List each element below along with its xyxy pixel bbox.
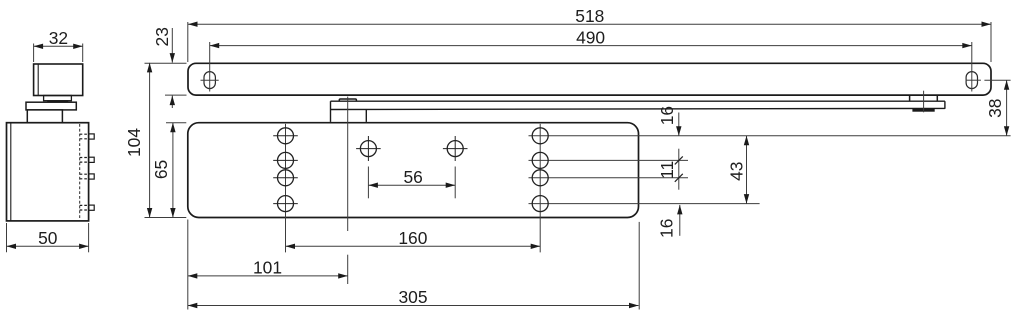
arm bar top edge (331, 100, 945, 102)
dimension 23: upper tail line (171, 28, 173, 63)
rail left slot (oblong hole) (204, 72, 215, 89)
svg-text:23: 23 (152, 27, 172, 46)
dimension 305: left arrow (188, 303, 198, 308)
dimension 305: left extension line (187, 220, 189, 310)
row 1 extension line (529, 135, 1011, 137)
dimension 65: top arrow (170, 123, 175, 133)
dimension 38: top arrow (1004, 80, 1009, 90)
dimension 38: right extension of slot centerline (984, 79, 1010, 81)
hole L2 (273, 152, 298, 168)
right hole column centerline (539, 124, 541, 253)
row 3 extension line (529, 177, 689, 179)
dimension 305: right arrow (629, 303, 639, 308)
hole R4 (532, 196, 548, 212)
left hole column centerline (285, 124, 287, 253)
svg-text:490: 490 (576, 27, 605, 47)
pinion vertical centerline (upper) (347, 97, 349, 231)
hole R3 (532, 170, 548, 186)
svg-text:160: 160 (398, 228, 427, 248)
dimension 490: left arrow (210, 43, 220, 48)
side view: pinion collar (dark) (47, 100, 68, 102)
dimension 518: left extension line (187, 22, 189, 62)
side view: mounting plate (26, 102, 76, 110)
dimension 160: dimension line (286, 245, 541, 247)
dimension 32: dimension line (34, 45, 83, 47)
dimension 32: left arrow (34, 44, 44, 49)
dimension 11: dimension line (678, 149, 680, 190)
dimension 11: upper slash tick (675, 156, 683, 164)
dimension 38: dimension line (1006, 80, 1008, 136)
svg-text:11: 11 (657, 161, 677, 179)
dimension 16 top: arrow (points down) (676, 126, 681, 136)
hole L1 (273, 128, 298, 144)
hole R1 (532, 128, 548, 144)
hole M1 (356, 136, 381, 161)
dimension 518: right extension line (990, 22, 992, 62)
side view: screw 1 (80, 134, 95, 139)
svg-text:305: 305 (398, 287, 427, 307)
dimension 65: dimension line (172, 123, 174, 218)
dimension 50: extension lines (7, 223, 89, 252)
dimension 16 bottom: arrow (points up) (677, 205, 682, 215)
side view: screw 3 (80, 174, 95, 179)
svg-text:16: 16 (657, 106, 677, 125)
dimension 490: dimension line (210, 45, 972, 47)
hole M1 extension line (367, 167, 369, 199)
dimension 32: right arrow (73, 44, 83, 49)
svg-text:38: 38 (985, 99, 1005, 118)
side view: arm shoe inner edge line (37, 64, 39, 96)
dimension 11: lower slash tick (675, 174, 683, 182)
hole L4 (273, 196, 298, 212)
dimension 38: bottom arrow (1004, 126, 1009, 136)
dimension 50: dimension line (7, 245, 89, 247)
arm hub right edge (365, 109, 367, 122)
slider pad (dark) (912, 109, 934, 112)
rail left slot vertical centerline / 490 extension (209, 42, 211, 92)
row 2 extension line (529, 159, 689, 161)
rail right slot vertical centerline / 490 extension (971, 42, 973, 92)
svg-text:16: 16 (656, 219, 676, 238)
svg-text:101: 101 (253, 257, 282, 277)
slider upper block (910, 95, 938, 101)
hole R2 (532, 152, 548, 168)
rail left slot horizontal centerline (201, 79, 219, 81)
hole L3 (273, 170, 298, 186)
rail bottom extension line (left) (165, 94, 187, 96)
dimension 23: upper arrow (points down) (170, 53, 175, 63)
svg-text:518: 518 (575, 6, 604, 26)
dimension 43: top arrow (744, 136, 749, 146)
dimension 518: right arrow (982, 22, 992, 27)
dimension 101: left arrow (188, 273, 198, 278)
dimension 305: right extension line (638, 222, 640, 310)
arm hub left edge (330, 101, 332, 122)
hole M2 extension line (454, 167, 456, 199)
dimension 160: left arrow (286, 244, 296, 249)
svg-text:56: 56 (404, 167, 423, 187)
body top extension line (left) (166, 122, 186, 124)
side view: screw 4 (80, 205, 95, 210)
closer body (front) (188, 123, 639, 218)
dimension 518: left arrow (188, 22, 198, 27)
side view: hub block (27, 110, 62, 123)
dimension 160: right arrow (531, 244, 541, 249)
slider vertical centerline (923, 91, 925, 113)
side view: screw 2 (80, 157, 95, 162)
side view: pinion boss (44, 96, 72, 101)
side view: body inner edge line (10, 123, 12, 221)
dimension 101: dimension line (188, 275, 348, 277)
dimension 104: top arrow (147, 63, 152, 73)
side view: arm shoe box (34, 64, 83, 96)
dimension 65: bottom arrow (170, 208, 175, 218)
dimension 16 top: tail line (678, 113, 680, 136)
dimension 56: left arrow (368, 183, 378, 188)
arm bar bottom edge (331, 108, 945, 109)
dimension 104: bottom arrow (147, 208, 152, 218)
rail right slot (oblong hole) (966, 72, 977, 89)
row 4 extension line (529, 203, 760, 205)
slider block right end (944, 101, 946, 109)
dimension 50: left arrow (7, 244, 17, 249)
pinion vertical centerline (lower) (347, 255, 349, 284)
pinion cap on arm (339, 99, 356, 101)
side view: hidden dashed line (79, 124, 81, 220)
slide rail (188, 63, 991, 95)
dimension 50: right arrow (79, 244, 89, 249)
svg-text:32: 32 (49, 28, 68, 48)
svg-text:104: 104 (124, 128, 144, 157)
body bottom extension line (left) (145, 217, 187, 219)
svg-text:65: 65 (151, 160, 171, 179)
hole M2 (443, 136, 468, 161)
dimension 32: extension lines (34, 44, 83, 63)
rail right slot horizontal centerline (966, 79, 981, 81)
dimension 16 bottom: tail line (679, 205, 681, 236)
rail top extension line (left) (145, 62, 187, 64)
dimension 43: bottom arrow (744, 194, 749, 204)
dimension 43: dimension line (746, 136, 748, 204)
dimension 490: right arrow (962, 43, 972, 48)
dimension 305: dimension line (188, 305, 639, 307)
dimension 23: lower arrow (points up) (170, 96, 175, 106)
side view: closer body (7, 123, 89, 221)
dimension 56: right arrow (446, 183, 456, 188)
dimension 104: dimension line (149, 63, 151, 218)
dimension 518: dimension line (188, 23, 991, 25)
dimension 23: lower tail line (171, 96, 173, 108)
svg-text:50: 50 (38, 228, 57, 248)
dimension 101: right arrow (338, 273, 348, 278)
svg-text:43: 43 (727, 162, 747, 181)
dimension 56: dimension line (368, 184, 455, 186)
